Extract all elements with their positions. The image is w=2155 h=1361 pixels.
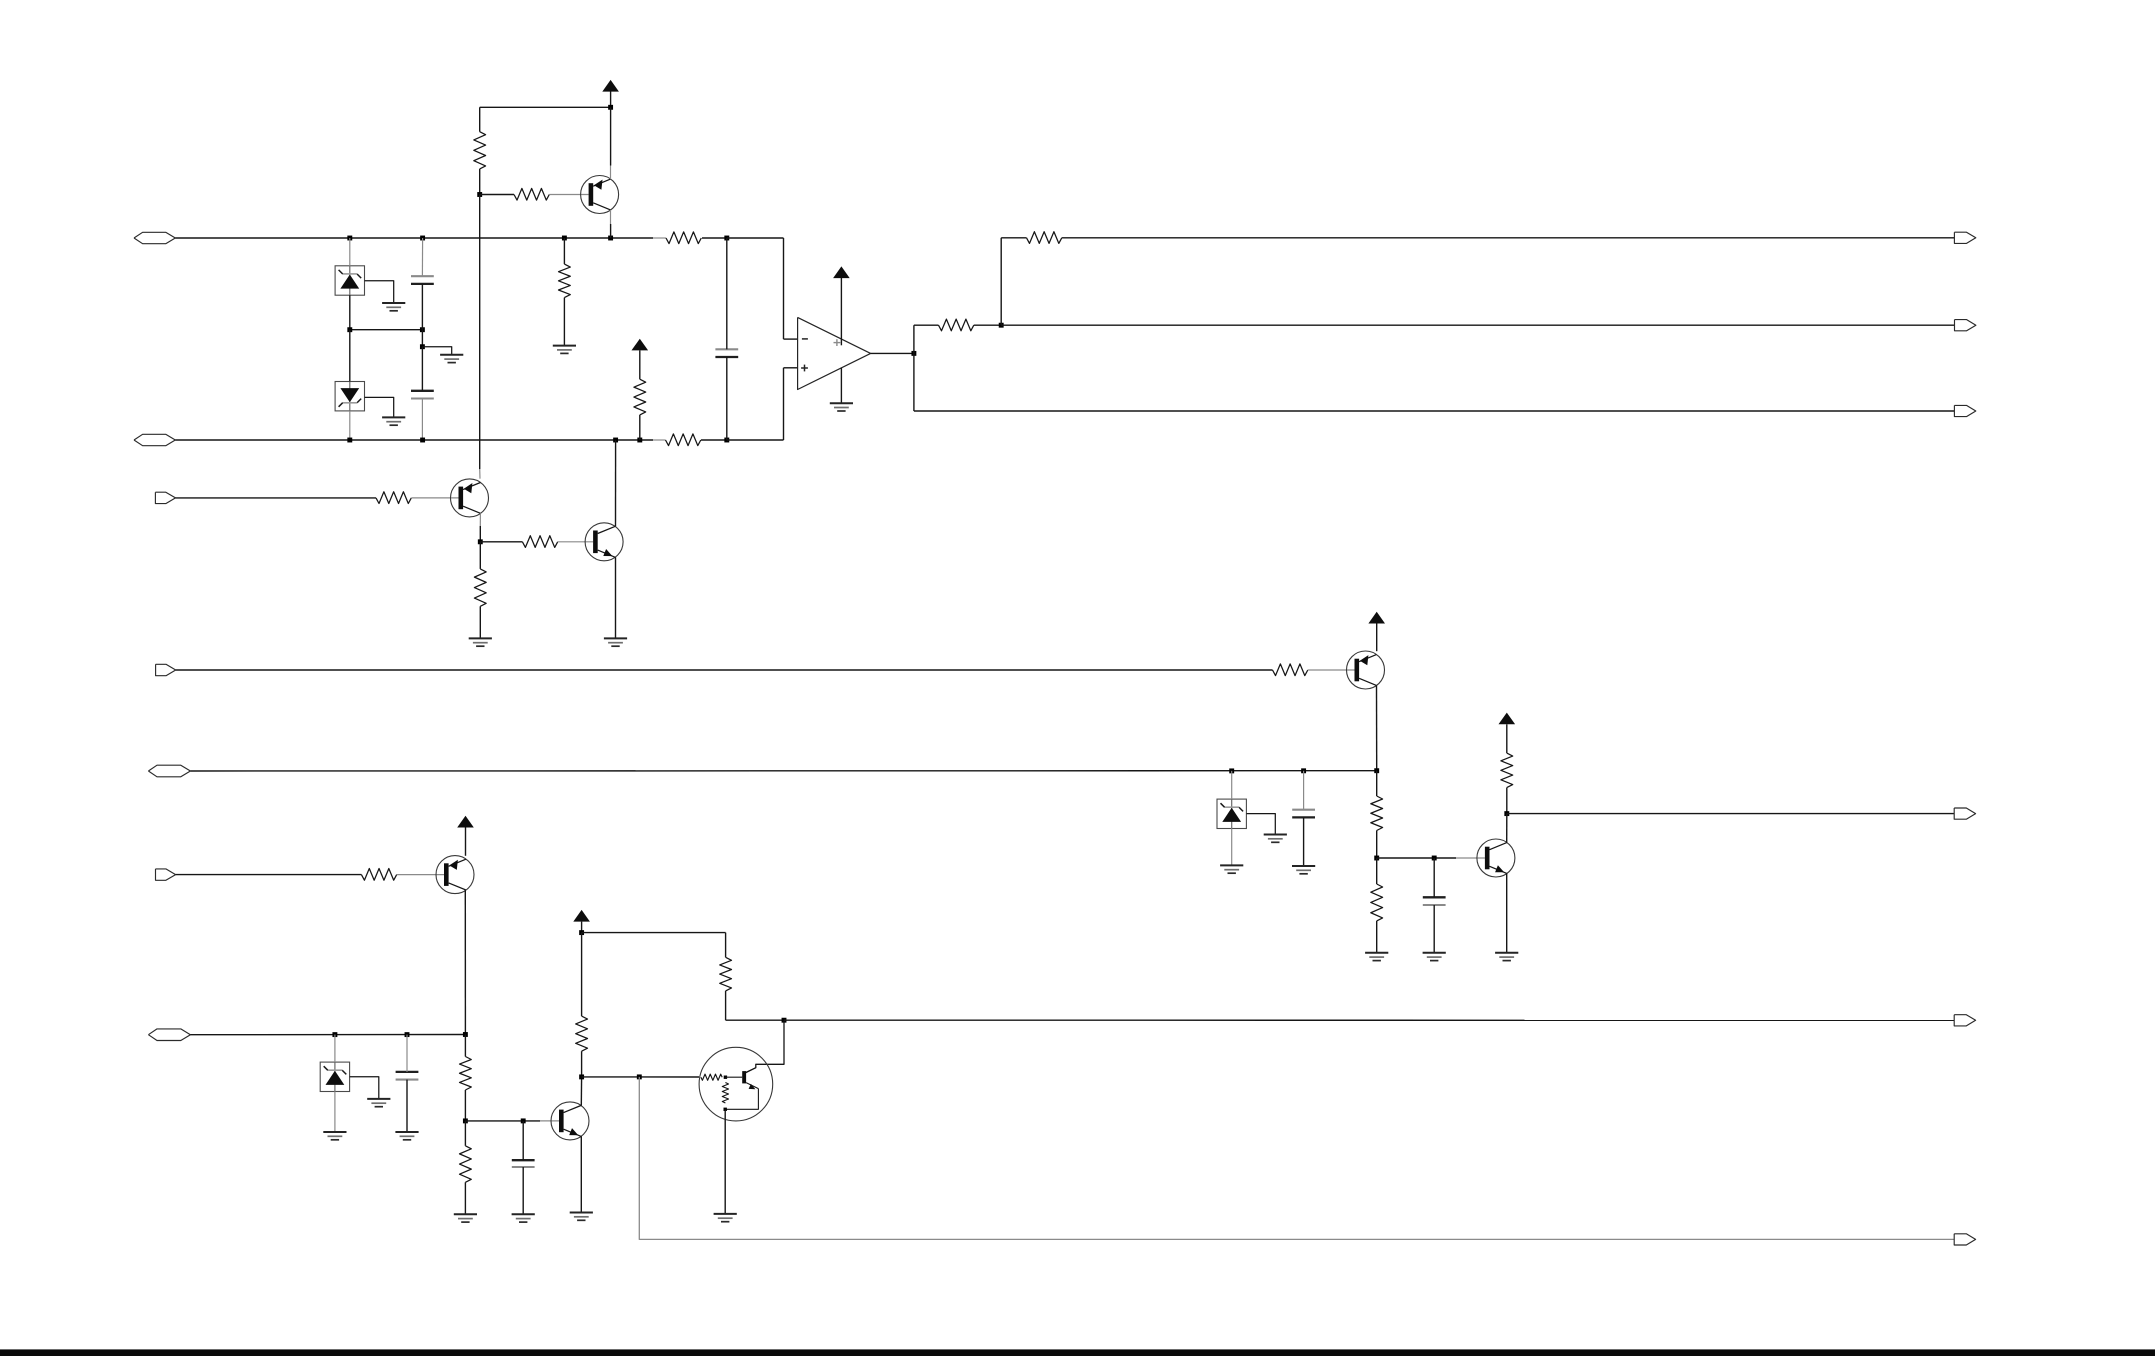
- wire Q1 collector down to N1: [610, 210, 612, 224]
- wire R13 top lead: [1376, 771, 1378, 796]
- junction dot N2/Q3 collector: [613, 438, 618, 443]
- wire Q4 emitter stub to VCC: [1376, 624, 1378, 652]
- bottom title-block border bar: [0, 1349, 2155, 1356]
- wire R6 top lead: [563, 238, 565, 264]
- wire R20 bottom lead: [725, 991, 727, 1020]
- wire N1-out lead to R11: [1001, 237, 1026, 239]
- wire D3 reference stub to ground: [1246, 814, 1275, 835]
- wire Q3 emitter down: [615, 557, 617, 638]
- transistor Q1 (PNP emitter-follower, top): [581, 176, 619, 214]
- off-page connector OUT-C: [1954, 405, 1975, 416]
- transistor Q8 collector diagonal: [746, 1068, 756, 1073]
- junction dot Q5 base node: [1374, 856, 1379, 861]
- capacitor C5 (N7 bypass): [396, 1071, 419, 1073]
- off-page connector IN3 (mute input): [155, 492, 175, 503]
- junction dot N1/Q1 collector: [608, 236, 613, 241]
- wire net N1 top input rail y=238: [175, 237, 653, 239]
- transistor Q8 emitter diagonal with arrow: [746, 1083, 758, 1089]
- capacitor C1 (N1 to mid node): [411, 275, 434, 277]
- wire gray lead into R4: [653, 439, 666, 441]
- transistor Q7 (NPN, bottom): [551, 1102, 589, 1140]
- wire D3 bottom lead: [1231, 829, 1233, 866]
- off-page connector IN1 (top-left input): [134, 232, 175, 243]
- wire Q8 base node to bar: [725, 1076, 742, 1078]
- junction dot node X: [999, 323, 1004, 328]
- wire D1 reference stub to ground: [365, 281, 394, 303]
- junction dot N1/D1: [347, 236, 352, 241]
- ground symbol mid node: [440, 354, 463, 356]
- wire Q7 collector up to node B8: [580, 1077, 582, 1106]
- wire D4 reference stub to ground: [350, 1077, 379, 1099]
- junction dot node B8: [579, 1074, 584, 1079]
- wire D1 bottom to mid link: [349, 295, 351, 330]
- resistor R2t (vertical, VCC to Q1 base node): [474, 132, 486, 169]
- wire gray lead into R1: [653, 237, 666, 239]
- wire R3b lead: [480, 194, 514, 196]
- junction dot mid ground node: [420, 344, 425, 349]
- junction dot mid out node: [1504, 811, 1509, 816]
- wire C6 bottom lead: [522, 1167, 524, 1214]
- wire R20 top lead from supply rail corner: [725, 933, 727, 958]
- wire net N6 y=874.6: [176, 874, 362, 876]
- resistor R3b (Q1 base): [514, 188, 549, 200]
- junction dot N7/D4: [332, 1032, 337, 1037]
- resistor R5 (vertical bias to N2): [634, 379, 646, 415]
- transistor Q8 bar: [742, 1071, 746, 1083]
- wire C2 top lead: [421, 347, 423, 391]
- ground symbol under C6: [512, 1213, 535, 1215]
- ground symbol under Q5: [1495, 952, 1518, 954]
- wire net OUT-F (gray) from gray tap: [639, 1077, 1954, 1240]
- resistor R10 (feedback): [939, 319, 974, 331]
- capacitor C7 (across op-amp inputs): [715, 348, 738, 350]
- wire R5 bottom to N2: [639, 415, 641, 440]
- junction dot N7/Q6 collector: [463, 1032, 468, 1037]
- wire VCC stem to rail: [610, 91, 612, 107]
- off-page connector IN6 (flag input): [156, 869, 176, 880]
- wire op-amp V- stem to ground: [840, 368, 842, 404]
- off-page connector OUT-E: [1954, 1015, 1975, 1026]
- junction dot output node: [911, 351, 916, 356]
- ground symbol op-amp: [830, 402, 853, 404]
- wire R2t to base node: [479, 169, 481, 195]
- off-page connector IN2 (second input): [134, 434, 175, 445]
- ground symbol under Q8: [714, 1213, 737, 1215]
- junction dot Q2 collector node: [478, 539, 483, 544]
- wire D4 bottom lead: [334, 1092, 336, 1133]
- zener diode D1 (boxed TVS, anode up): [335, 266, 364, 295]
- capacitor C2 (mid node to N2): [411, 390, 434, 392]
- junction dot supply node: [579, 930, 584, 935]
- wire net OUT-B y=325: [1001, 324, 1954, 326]
- wire VCC to R15: [1506, 724, 1508, 753]
- zener diode D2 (boxed TVS, anode down): [335, 382, 364, 411]
- junction dot gray tap: [637, 1074, 642, 1079]
- wire R18 top lead: [464, 1121, 466, 1146]
- ground symbol for D4 stub: [367, 1098, 390, 1100]
- resistor R17 (vertical divider upper): [460, 1057, 472, 1091]
- junction dot N7/C5: [405, 1032, 410, 1037]
- wire R10 to node X: [974, 324, 1001, 326]
- resistor R15 (Q5 collector load): [1501, 753, 1513, 788]
- wire C6 top lead: [522, 1121, 524, 1160]
- wire D3 top lead: [1231, 771, 1233, 799]
- zener diode D4 (boxed TVS on N7): [320, 1062, 349, 1091]
- junction dot node E: [782, 1018, 787, 1023]
- resistor R19 (vertical, supply to node B8): [576, 1016, 588, 1051]
- junction dot VCC rail / Q1 emitter: [608, 105, 613, 110]
- wire C4 bottom lead: [1433, 905, 1435, 953]
- wire gray lead R3b to Q1 base: [549, 194, 588, 196]
- wire Q4 collector down to N5: [1376, 685, 1378, 770]
- wire C1 top lead: [421, 238, 423, 276]
- wire Q5 emitter down: [1506, 873, 1508, 952]
- wire Q6 emitter stub to VCC: [465, 828, 467, 856]
- junction dot N2/C2: [420, 438, 425, 443]
- off-page connector OUT-B: [1955, 320, 1976, 331]
- off-page connector IN5 (hex input): [148, 765, 190, 777]
- wire net N4 y=670: [176, 669, 1273, 671]
- ground symbol under C4: [1423, 952, 1446, 954]
- wire Q1 emitter stub up: [610, 166, 612, 180]
- wire D2 top lead: [349, 330, 351, 382]
- wire VCC rail down to resistor R2t: [479, 107, 481, 131]
- wire N2 to non-inverting corner: [727, 439, 784, 441]
- wire mid ground step: [422, 347, 451, 355]
- VCC arrow symbol (op-amp supply): [833, 266, 850, 278]
- wire Q7 emitter down: [580, 1136, 582, 1212]
- resistor R18 (vertical divider lower): [460, 1146, 472, 1183]
- wire net OUT-E y=1020: [784, 1019, 1955, 1021]
- wire D2 bottom lead to N2: [349, 411, 351, 440]
- wire Q2c node to R8 lead: [480, 541, 522, 543]
- ground symbol under D3: [1220, 864, 1243, 866]
- wire mid link D1-C1 y=330: [350, 329, 423, 331]
- op-amp supply plus mark (gray): [834, 342, 841, 344]
- resistor R13 (vertical divider upper): [1371, 796, 1383, 831]
- resistor R7 (series on N3): [376, 492, 411, 504]
- wire net OUT-C y=411: [914, 410, 1955, 412]
- VCC arrow symbol (Q4 emitter): [1368, 612, 1385, 624]
- wire net OUT-D y=813.6: [1507, 813, 1955, 815]
- wire node X up to N1-out row: [1000, 238, 1002, 325]
- op-amp U1 plus sign: [801, 367, 808, 369]
- transistor Q3 (NPN shunt): [585, 523, 623, 561]
- wire C1 bottom lead to link: [421, 284, 423, 330]
- wire R17 top lead: [464, 1035, 466, 1057]
- off-page connector IN7 (hex input): [148, 1029, 190, 1041]
- VCC arrow symbol (Q6 emitter): [457, 816, 474, 828]
- junction dot base row/C6: [521, 1118, 526, 1123]
- wire node B8 to Q8 base: [582, 1076, 700, 1078]
- wire net N5 y=771: [191, 770, 1377, 772]
- resistor R22 (Q8 internal base-emitter): [722, 1083, 728, 1104]
- zener diode D3 (boxed TVS on N5): [1217, 799, 1246, 828]
- wire node E down to Q8 collector: [746, 1020, 784, 1072]
- wire C7 bottom lead: [726, 357, 728, 440]
- wire N1 to inverting branch corner: [727, 237, 784, 239]
- junction dot N1/C1: [420, 236, 425, 241]
- wire output node vertical: [913, 325, 915, 353]
- VCC arrow symbol (Q5 collector load): [1499, 713, 1516, 725]
- wire U1 output: [871, 352, 914, 354]
- wire net N3 y=498: [176, 497, 377, 499]
- VCC arrow symbol (over R5 bias): [632, 339, 649, 351]
- resistor R1 (series on N1): [666, 232, 701, 244]
- resistor R8 (Q3 base): [522, 536, 557, 548]
- off-page connector OUT-F: [1954, 1234, 1975, 1245]
- resistor R9 (vertical, Q2c node to ground): [474, 569, 486, 606]
- junction dot Q7 base node: [463, 1118, 468, 1123]
- ground symbol under R6: [553, 345, 576, 347]
- ground symbol under R9: [469, 637, 492, 639]
- wire supply rail right: [582, 932, 726, 934]
- junction dot R4/C7 node: [724, 438, 729, 443]
- ground symbol under D4: [323, 1131, 346, 1133]
- ground symbol under C3: [1292, 865, 1315, 867]
- capacitor C3 (N5 bypass): [1292, 809, 1315, 811]
- wire R13 bottom to Q5 base node: [1376, 831, 1378, 859]
- wire D1 top lead: [349, 238, 351, 266]
- ground symbol under C5: [395, 1131, 418, 1133]
- junction dot N2/D2: [347, 438, 352, 443]
- wire C2 bottom lead: [421, 399, 423, 441]
- wire C5 bottom lead: [406, 1080, 408, 1132]
- wire Q7 base row y=1121: [465, 1120, 523, 1122]
- junction dot Q8 internal base node: [724, 1076, 727, 1079]
- transistor Q6 (PNP, bottom): [436, 856, 474, 894]
- wire R18 bottom lead: [464, 1182, 466, 1214]
- wire R20 corner to node E: [726, 1019, 784, 1021]
- wire R15 to out node: [1506, 788, 1508, 814]
- junction dot N5/D3: [1229, 768, 1234, 773]
- wire Q2 collector down: [479, 513, 481, 526]
- wire gray lead R16 to Q6 base: [397, 874, 444, 876]
- resistor R14 (vertical divider lower): [1371, 884, 1383, 921]
- wire R19 top lead: [581, 933, 583, 1017]
- junction dot Q8 internal emitter node: [724, 1108, 727, 1111]
- wire Q8 emitter down to ground: [724, 1109, 726, 1214]
- wire Q3 collector up to N2: [615, 440, 617, 526]
- wire R14 top lead: [1376, 858, 1378, 884]
- junction dot N5/C3: [1301, 768, 1306, 773]
- junction dot N1/R-mid: [562, 236, 567, 241]
- ground symbol for D1 stub: [382, 302, 405, 304]
- wire R14 bottom lead: [1376, 921, 1378, 953]
- wire R19 bottom to node B8: [581, 1051, 583, 1077]
- junction dot Q1 base node: [477, 192, 482, 197]
- wire gray lead R8 to Q3 base: [558, 541, 593, 543]
- wire R17 bottom to Q7 base node: [464, 1090, 466, 1121]
- wire Q6 collector down to N7: [464, 890, 466, 1035]
- wire plus input stub: [784, 367, 798, 369]
- wire link down to ground-step node: [421, 330, 423, 347]
- junction dot N2/R-vcc2: [637, 438, 642, 443]
- junction dot R1/C7 node: [724, 236, 729, 241]
- op-amp U1 minus sign: [802, 338, 808, 340]
- resistor R21 (Q8 internal base): [701, 1074, 722, 1080]
- resistor R12 (Q4 base series): [1273, 664, 1308, 676]
- capacitor C4 (Q5 base to ground): [1423, 896, 1446, 898]
- wire C4 top lead: [1433, 858, 1435, 897]
- junction dot link/D1: [347, 327, 352, 332]
- off-page connector OUT-D: [1954, 808, 1975, 819]
- wire gray lead R7 to Q2 base: [411, 497, 458, 499]
- wire Q8 emitter path: [725, 1089, 758, 1110]
- wire C3 top lead: [1303, 771, 1305, 810]
- wire D2 reference stub to ground: [365, 397, 394, 417]
- transistor Q8 (pre-biased NPN, large circle): [699, 1047, 773, 1121]
- capacitor C6 (Q7 base to ground): [512, 1159, 535, 1161]
- wire VCC rail y=107: [480, 106, 611, 108]
- VCC arrow symbol (Q7/Q8 supply): [573, 910, 590, 922]
- wire minus input stub: [784, 338, 798, 340]
- transistor Q2 (PNP switch): [451, 479, 489, 517]
- junction dot N5/Q4 collector: [1374, 768, 1379, 773]
- junction dot base row/C4: [1432, 856, 1437, 861]
- wire net N7 y=1034.6: [191, 1034, 466, 1036]
- wire VCC5 stem: [639, 350, 641, 379]
- wire R9 bottom lead: [479, 606, 481, 638]
- wire Q5 base row y=858: [1377, 857, 1435, 859]
- resistor R4 (series on N2): [666, 434, 701, 446]
- wire R9 top lead: [479, 542, 481, 569]
- ground symbol under Q3 emitter: [604, 637, 627, 639]
- wire Q5 collector up: [1506, 814, 1508, 843]
- resistor R6 (vertical, N1 to ground): [559, 264, 571, 298]
- wire D4 top lead: [334, 1035, 336, 1063]
- wire C5 top lead: [406, 1035, 408, 1072]
- ground symbol under R18: [454, 1213, 477, 1215]
- resistor R16 (Q6 base series): [361, 869, 396, 881]
- transistor Q5 (NPN, middle out): [1477, 839, 1515, 877]
- wire base node down chain x=480 (crosses N1,N2) to Q2 emitter: [479, 195, 481, 470]
- VCC arrow symbol (top, over Q1): [602, 80, 619, 92]
- ground symbol for D3 stub: [1264, 834, 1287, 836]
- resistor R20 (vertical, Q8 collector load): [720, 957, 732, 991]
- wire net OUT-A y=238: [1062, 237, 1955, 239]
- off-page connector IN4 (flag input): [156, 664, 176, 675]
- junction dot link/C1: [420, 327, 425, 332]
- wire C7 top lead: [726, 238, 728, 349]
- wire R6 bottom lead: [563, 298, 565, 346]
- op-amp U1 triangle: [798, 317, 871, 389]
- wire op-amp V+ stem: [840, 278, 842, 345]
- ground symbol under Q7: [570, 1212, 593, 1214]
- wire net N2 lower input rail y=440: [175, 439, 653, 441]
- wire VCC stem to supply node: [581, 922, 583, 933]
- transistor Q4 (PNP, middle): [1347, 651, 1385, 689]
- resistor R11 (output series): [1027, 232, 1062, 244]
- ground symbol for D2 stub: [382, 416, 405, 418]
- ground symbol under R14: [1365, 952, 1388, 954]
- wire gray lead R12 to Q4 base: [1308, 669, 1355, 671]
- off-page connector OUT-A: [1954, 232, 1975, 243]
- wire C3 bottom lead: [1303, 817, 1305, 866]
- wire R10 lead: [914, 324, 939, 326]
